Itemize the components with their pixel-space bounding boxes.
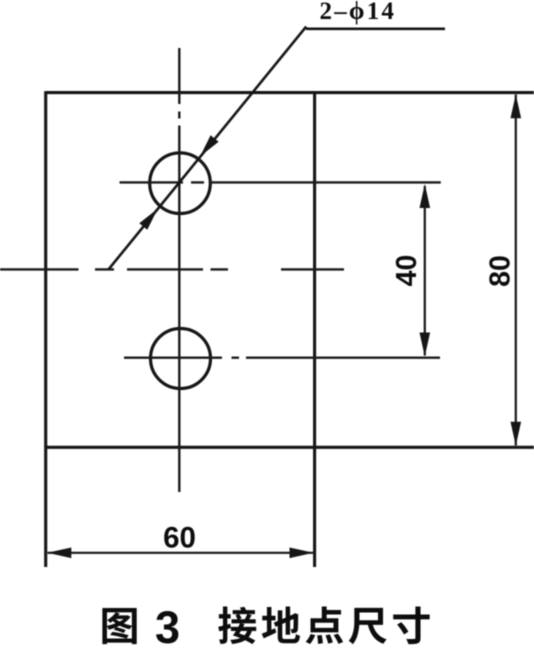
svg-text:3: 3 [155,602,180,651]
svg-text:2–ϕ14: 2–ϕ14 [320,0,397,25]
svg-text:80: 80 [485,255,517,287]
svg-text:60: 60 [163,522,196,555]
svg-text:40: 40 [391,255,423,287]
